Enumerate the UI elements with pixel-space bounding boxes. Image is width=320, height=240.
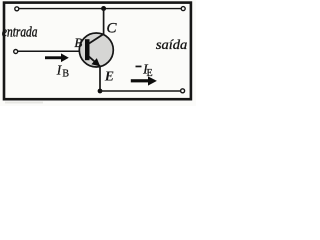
border frame [4,3,191,100]
svg-text:E: E [104,69,114,84]
terminal output top [181,7,185,11]
transistor Q1 emitter arrowhead [91,58,100,66]
current arrow IB [45,53,69,62]
svg-text:entrada: entrada [2,25,38,41]
node collector junction dot [101,6,106,11]
svg-text:B: B [74,35,82,50]
wire base lead [18,50,86,52]
svg-text:C: C [107,20,118,36]
terminal input bottom [14,50,18,54]
terminal input top [15,7,19,11]
transistor Q1 emitter stroke [89,56,101,66]
wire emitter lead [99,67,101,92]
wire bottom rail [100,90,181,92]
transistor Q1 body [79,33,113,67]
value label -IE [136,66,142,68]
svg-text:E: E [147,68,153,79]
svg-text:saída: saída [156,38,187,53]
svg-text:B: B [62,68,69,79]
scan smudge [5,102,43,104]
node emitter junction dot [98,89,103,94]
current arrow IE [131,76,157,85]
terminal output bottom [181,89,185,93]
wire top rail [19,8,181,10]
transistor Q1 base bar [85,39,90,60]
wire collector lead [103,9,105,35]
transistor Q1 collector stroke [89,34,104,44]
